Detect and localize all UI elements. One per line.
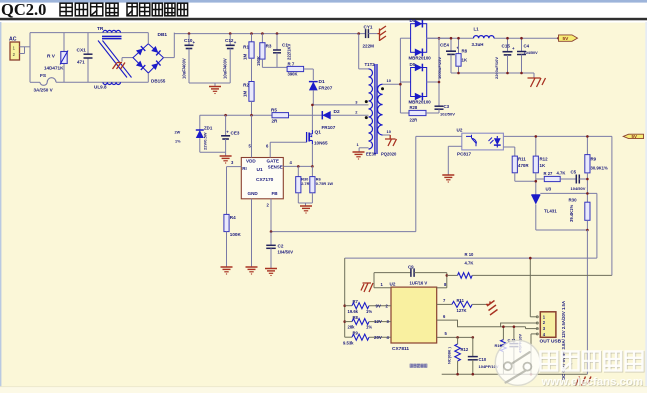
fuse FS — [40, 78, 56, 86]
capacitor CX1 — [87, 33, 89, 55]
svg-text:222/1KV: 222/1KV — [287, 43, 292, 60]
junction sec hot — [399, 83, 402, 86]
svg-text:9.53k: 9.53k — [343, 340, 354, 345]
svg-text:R7: R7 — [353, 299, 359, 304]
capacitor C10 electrolytic — [188, 34, 190, 46]
capacitor C3 102/50V — [435, 105, 444, 107]
svg-text:2W: 2W — [175, 131, 181, 135]
svg-text:R8: R8 — [353, 315, 359, 320]
svg-text:2R: 2R — [272, 119, 279, 124]
connector OUT USB — [540, 312, 556, 338]
svg-text:FR107: FR107 — [322, 125, 336, 130]
capacitor CE3 — [225, 115, 227, 136]
svg-text:CX1: CX1 — [77, 48, 87, 54]
inductor L1 3.3uH — [474, 36, 495, 39]
ground hatch R11 — [486, 301, 498, 316]
diode D2 FR107 — [322, 111, 330, 119]
svg-text:C12: C12 — [225, 38, 234, 43]
svg-text:GATE: GATE — [267, 159, 279, 164]
junction R8 — [457, 37, 460, 40]
resistor R10 zigzag — [447, 274, 458, 276]
svg-text:CX7811: CX7811 — [392, 346, 409, 352]
svg-text:1000uF/25V: 1000uF/25V — [437, 57, 442, 79]
svg-text:FS: FS — [40, 73, 47, 79]
resistor R4 100K — [224, 214, 229, 231]
svg-text:10: 10 — [387, 78, 392, 83]
capacitor CY1 222M — [359, 33, 366, 35]
svg-text:RI: RI — [242, 166, 246, 171]
transformer secondary — [378, 84, 383, 135]
svg-text:R12: R12 — [540, 157, 549, 162]
svg-text:R11: R11 — [518, 157, 526, 162]
svg-text:ZD1: ZD1 — [204, 126, 213, 131]
resistor R9 9.53k — [345, 336, 352, 338]
transformer T1/T2 primary — [358, 34, 360, 69]
svg-text:2.7R: 2.7R — [301, 181, 309, 186]
wire bulk cap ground bus — [189, 82, 230, 84]
junction D4-D5 outputs — [438, 37, 441, 40]
svg-text:C9: C9 — [408, 265, 414, 270]
svg-text:MBR20100: MBR20100 — [409, 100, 432, 105]
junction R12-R27 — [535, 180, 538, 183]
ground chassis at bridge minus — [122, 57, 133, 59]
svg-text:1K: 1K — [540, 163, 546, 168]
resistor R11 127K — [452, 301, 472, 307]
common-mode choke TR — [103, 30, 121, 32]
svg-text:14D471K: 14D471K — [44, 66, 64, 71]
transformer pin2 stub — [368, 114, 370, 116]
svg-text:TR: TR — [97, 26, 104, 32]
junction R12 top — [535, 135, 538, 138]
capacitor C5 104/50V — [575, 175, 577, 184]
wire left input bus — [29, 33, 31, 83]
IC U2 CX7811 — [391, 287, 437, 343]
resistor R5 2R — [272, 113, 289, 118]
svg-text:1%: 1% — [366, 325, 372, 330]
capacitor C1 — [276, 34, 278, 50]
svg-text:PC817: PC817 — [457, 152, 471, 157]
bottom margin strip — [0, 387, 647, 393]
svg-text:DB155: DB155 — [151, 79, 166, 84]
power flag 5V right — [623, 134, 643, 138]
wire AC to bus — [20, 46, 31, 48]
wire opto collector to FB — [416, 135, 462, 137]
svg-text:39.4K1%: 39.4K1% — [569, 204, 574, 222]
junction drain node — [311, 104, 314, 107]
capacitor C4 104/50V — [521, 38, 523, 51]
junction C4 — [520, 37, 523, 40]
wire U1 GND pin — [251, 199, 253, 267]
ground ZD1/CE3 — [220, 155, 232, 157]
resistor R12 1K — [535, 136, 537, 156]
svg-text:470R: 470R — [518, 163, 529, 168]
junction gnd bus — [457, 72, 460, 75]
varistor RV — [63, 33, 65, 52]
ground opto emitter — [442, 174, 454, 176]
wire gate to Q1 — [270, 141, 306, 143]
svg-text:R9: R9 — [353, 331, 359, 336]
ground C2 — [265, 268, 277, 270]
wire U2 pin5 — [437, 336, 473, 338]
svg-text:D1: D1 — [319, 79, 325, 85]
svg-text:+: + — [512, 46, 515, 51]
svg-text:R12: R12 — [461, 347, 469, 352]
capacitor C12 electrolytic — [229, 34, 231, 46]
wire U2 pin6 D- route — [437, 320, 538, 327]
svg-text:222M: 222M — [363, 44, 375, 49]
svg-text:3A/250 V: 3A/250 V — [34, 88, 54, 93]
svg-text:U3: U3 — [546, 187, 552, 192]
resistor R7 390K — [287, 66, 304, 71]
svg-text:1M: 1M — [243, 91, 248, 97]
wire U1 RI pin3 to R4 — [227, 166, 242, 168]
junction dots HV rail — [188, 32, 191, 35]
svg-text:R5: R5 — [271, 108, 277, 113]
svg-text:D2: D2 — [334, 109, 340, 115]
wire clamp node — [262, 66, 287, 68]
svg-text:1UF/16 V: 1UF/16 V — [410, 281, 428, 286]
svg-text:T1T2: T1T2 — [365, 62, 376, 67]
svg-text:390K: 390K — [288, 72, 298, 77]
wire TL431 anode bus — [536, 229, 588, 231]
svg-text:+: + — [234, 40, 237, 45]
wire R7 to D1 — [304, 68, 314, 70]
svg-text:4.7K: 4.7K — [465, 260, 474, 265]
svg-text:R 27: R 27 — [544, 171, 554, 176]
wire bridge top to AC rail — [147, 33, 149, 44]
ground transformer pin1 — [353, 151, 365, 153]
svg-text:127K: 127K — [457, 308, 467, 313]
wire U2 pin8 — [437, 287, 447, 289]
wire VDD net — [200, 114, 369, 116]
svg-text:L1: L1 — [474, 27, 480, 32]
svg-text:U2: U2 — [457, 128, 463, 133]
wire FB net to opto — [271, 231, 416, 233]
watermark text elecfans — [541, 352, 644, 390]
svg-text:FR207: FR207 — [319, 86, 333, 91]
power flag 5V output — [557, 37, 560, 40]
wire opto led cathode to R11 — [503, 146, 514, 148]
transistor Q1 10N65 — [306, 132, 308, 142]
resistor R3 — [261, 34, 263, 43]
svg-text:5V: 5V — [563, 36, 570, 42]
wire secondary gnd bus — [451, 72, 534, 74]
diode D1 FR207 — [309, 82, 318, 91]
ground hatch secondary return — [385, 135, 397, 146]
wire bottom AC rail — [30, 81, 40, 83]
wire U1 VDD pin — [251, 115, 253, 157]
ground hatch pin1 — [361, 283, 373, 292]
svg-text:EE30: EE30 — [366, 152, 377, 157]
svg-text:QC2.0: QC2.0 — [1, 0, 46, 19]
junction VDD-CE3 — [224, 114, 227, 117]
svg-text:2200uF/10V: 2200uF/10V — [494, 57, 499, 79]
wire opto emitter to gnd — [448, 145, 462, 147]
transformer core — [374, 64, 376, 154]
svg-text:R3: R3 — [266, 44, 272, 49]
wire bridge bottom to AC rail — [147, 73, 149, 82]
junction CE4 — [450, 37, 453, 40]
svg-text:U1: U1 — [257, 167, 263, 173]
svg-text:1K: 1K — [462, 58, 468, 63]
svg-text:R9: R9 — [591, 157, 597, 162]
svg-text:C15: C15 — [502, 44, 511, 49]
resistor R2 — [251, 58, 253, 81]
svg-text:20V: 20V — [374, 335, 382, 340]
resistor R7 19.6k — [343, 304, 346, 307]
wire R4 to ground — [226, 232, 228, 267]
wire U1 FB pin — [270, 199, 272, 232]
svg-text:+: + — [226, 129, 229, 134]
svg-text:R11: R11 — [457, 298, 465, 303]
svg-text:C5: C5 — [571, 170, 577, 175]
wire divider bus — [344, 258, 346, 337]
svg-text:R28: R28 — [410, 105, 418, 110]
svg-text:C2: C2 — [278, 244, 284, 249]
resistor R8 1K — [458, 38, 460, 53]
svg-text:OUT USB: OUT USB — [540, 339, 562, 345]
title underline — [0, 18, 647, 21]
svg-text:12V: 12V — [374, 319, 382, 324]
ground U1 — [246, 266, 258, 268]
wire ZD1-CE3 gnd — [200, 151, 226, 153]
svg-text:10uF/400V: 10uF/400V — [182, 58, 187, 79]
svg-text:+: + — [193, 40, 196, 45]
wire gnd drop right — [586, 230, 588, 374]
svg-text:CE3: CE3 — [231, 131, 240, 136]
resistor R8 28k — [343, 320, 346, 323]
resistor R27 4.7K — [544, 176, 560, 181]
dual diode D5 MBR20100 — [400, 81, 410, 83]
capacitor C10 104PF — [472, 337, 474, 356]
svg-text:TL431: TL431 — [544, 209, 557, 214]
ground hatch bottom right — [576, 377, 592, 386]
svg-text:CE4: CE4 — [440, 43, 449, 48]
junction C15 — [506, 37, 509, 40]
wire drain node to transformer pin3 — [312, 104, 368, 106]
svg-text:0.75R 1W: 0.75R 1W — [316, 181, 334, 186]
svg-text:1%: 1% — [175, 140, 181, 144]
resistor R9 30.9K — [586, 136, 588, 154]
svg-text:R2: R2 — [243, 83, 249, 88]
title text 快充方案 (pseudo glyphs) — [60, 3, 72, 16]
wire ref bracket down — [596, 193, 598, 258]
label block note — [410, 364, 413, 367]
svg-text:3.3uH: 3.3uH — [472, 42, 484, 47]
watermark logo circle — [495, 340, 540, 385]
svg-text:R V: R V — [47, 54, 56, 60]
svg-text:U2: U2 — [390, 281, 396, 286]
svg-text:MBR20100: MBR20100 — [409, 56, 432, 61]
svg-text:104/50V: 104/50V — [571, 186, 586, 191]
resistor R30 2.7R — [297, 166, 299, 176]
ground chassis CY1 — [378, 26, 387, 41]
resistor R6 0.75R — [311, 166, 313, 176]
junction HV rail - transformer — [357, 32, 360, 35]
svg-text:100K: 100K — [230, 232, 242, 237]
svg-text:SENSE: SENSE — [268, 165, 283, 170]
junction pin8 node — [446, 274, 449, 277]
svg-text:1M: 1M — [243, 54, 248, 60]
title band — [0, 0, 647, 23]
wire R10 sense long — [345, 257, 597, 259]
bridge rectifier DB1 — [133, 44, 164, 73]
svg-text:28k: 28k — [348, 325, 356, 330]
dual diode D4 MBR20100 — [400, 37, 410, 39]
capacitor CE4 1000uF/25V — [450, 38, 452, 51]
svg-text:AC: AC — [9, 37, 17, 43]
svg-text:4.7K: 4.7K — [557, 171, 566, 176]
ground bulk caps — [209, 86, 221, 88]
svg-text:FB: FB — [272, 191, 279, 196]
capacitor C11 470PF — [513, 327, 515, 344]
wire 5V output rail — [427, 37, 474, 39]
junction sense-R6 — [311, 165, 314, 168]
svg-text:9V: 9V — [376, 303, 381, 308]
svg-text:R8: R8 — [462, 49, 468, 54]
wire 5V sense rail — [503, 135, 612, 137]
wire U1 GATE pin — [269, 142, 271, 157]
transformer sec top stub pin10 — [383, 83, 401, 85]
wire top AC rail — [30, 32, 148, 34]
svg-text:R1: R1 — [243, 45, 249, 50]
svg-text:DB1: DB1 — [158, 32, 168, 38]
wire U2 pin7 — [437, 303, 452, 305]
ground hatch secondary — [528, 78, 546, 87]
ground sense — [300, 205, 312, 207]
wire HV DC rail — [174, 33, 358, 35]
svg-text:R4: R4 — [230, 215, 236, 220]
svg-text:104/50V: 104/50V — [524, 51, 539, 55]
wire secondary hot bus — [399, 38, 401, 113]
transformer sec dot — [381, 87, 384, 90]
svg-text:22V/0.5W: 22V/0.5W — [203, 132, 208, 150]
svg-text:PQ2020: PQ2020 — [381, 152, 397, 157]
svg-text:CY1: CY1 — [364, 25, 373, 30]
resistor R11 470R — [512, 156, 517, 173]
svg-text:30.9K1%: 30.9K1% — [591, 166, 609, 171]
svg-text:C4: C4 — [524, 44, 530, 49]
optocoupler U2 PC817 — [462, 133, 504, 150]
capacitor C9 1UF/16V — [373, 273, 375, 288]
resistor R30 39.4K — [585, 202, 590, 220]
junction FB-C2 — [270, 230, 273, 233]
wire bridge DC+ up to HV rail — [164, 57, 175, 59]
shunt reg U3 TL431 — [535, 192, 537, 195]
ground R4 — [221, 266, 233, 268]
wire USB pin1 VBUS — [530, 316, 538, 318]
svg-text:10: 10 — [387, 129, 392, 134]
resistor R28 22R — [400, 112, 409, 114]
wire drain vertical — [311, 105, 313, 130]
svg-text:D4: D4 — [410, 18, 416, 23]
resistor R15 75R — [502, 327, 504, 340]
IC U1 CX7170 — [241, 158, 283, 199]
left page edge — [0, 22, 1, 393]
wire TL431 ref — [540, 192, 597, 194]
svg-text:Q1: Q1 — [315, 130, 322, 136]
svg-text:UL9.8: UL9.8 — [94, 85, 107, 90]
svg-text:VDD: VDD — [246, 159, 256, 164]
wire SENSE pin — [283, 165, 312, 167]
svg-text:C10: C10 — [479, 357, 487, 362]
resistor R1 — [251, 34, 253, 42]
wire D+ branch — [501, 326, 526, 328]
capacitor C15 2200uF/10V — [507, 38, 509, 52]
svg-text:471: 471 — [77, 60, 85, 65]
resistor R12 NC — [457, 337, 459, 344]
svg-text:D5: D5 — [410, 62, 416, 67]
svg-text:www.elecfans.com: www.elecfans.com — [541, 376, 644, 388]
wire Q1 source to sense — [311, 144, 313, 166]
transformer sec bottom stub — [383, 134, 391, 136]
zener ZD1 22V — [199, 115, 201, 129]
wire D5 output up to rail — [438, 38, 440, 106]
svg-text:NC(08K ): NC(08K ) — [447, 346, 452, 364]
wire sense resistors gnd — [298, 202, 312, 204]
junction sense-R30 — [297, 165, 300, 168]
svg-text:150K: 150K — [256, 56, 261, 66]
title text 应用原理图 (pseudo glyphs) — [127, 3, 137, 16]
wire R9 bottom bus — [586, 173, 588, 202]
wire R10 to 5V rail — [472, 274, 612, 276]
connector AC input — [10, 42, 20, 60]
wire R11 bottom — [514, 173, 516, 181]
svg-text:C3: C3 — [444, 104, 450, 109]
svg-text:R30: R30 — [569, 198, 578, 203]
wire USB pin2 stub — [537, 322, 539, 324]
svg-text:19.6k: 19.6k — [348, 309, 359, 314]
junction VDD-R2 — [250, 114, 253, 117]
svg-text:104/50V: 104/50V — [278, 250, 294, 255]
transformer pin3 stub — [365, 100, 368, 103]
wire USB pin4 gnd — [531, 333, 538, 335]
svg-text:CX7170: CX7170 — [256, 177, 274, 183]
junction R9 top — [586, 135, 589, 138]
svg-text:5V: 5V — [632, 134, 637, 139]
svg-text:1%: 1% — [366, 309, 372, 314]
right page edge — [645, 22, 647, 393]
svg-text:22R: 22R — [410, 118, 418, 123]
wire U2 pin1 — [374, 287, 391, 289]
capacitor C2 104/50V — [270, 232, 272, 246]
svg-text:R 7: R 7 — [288, 62, 295, 67]
svg-text:R 10: R 10 — [465, 252, 475, 257]
svg-text:102/50V: 102/50V — [440, 112, 455, 117]
svg-text:10uF/400V: 10uF/400V — [223, 58, 228, 79]
wire bottom gnd rail — [442, 373, 588, 375]
svg-text:GND: GND — [248, 191, 259, 196]
transformer pin1 stub — [359, 147, 368, 149]
svg-text:10N65: 10N65 — [314, 141, 328, 146]
